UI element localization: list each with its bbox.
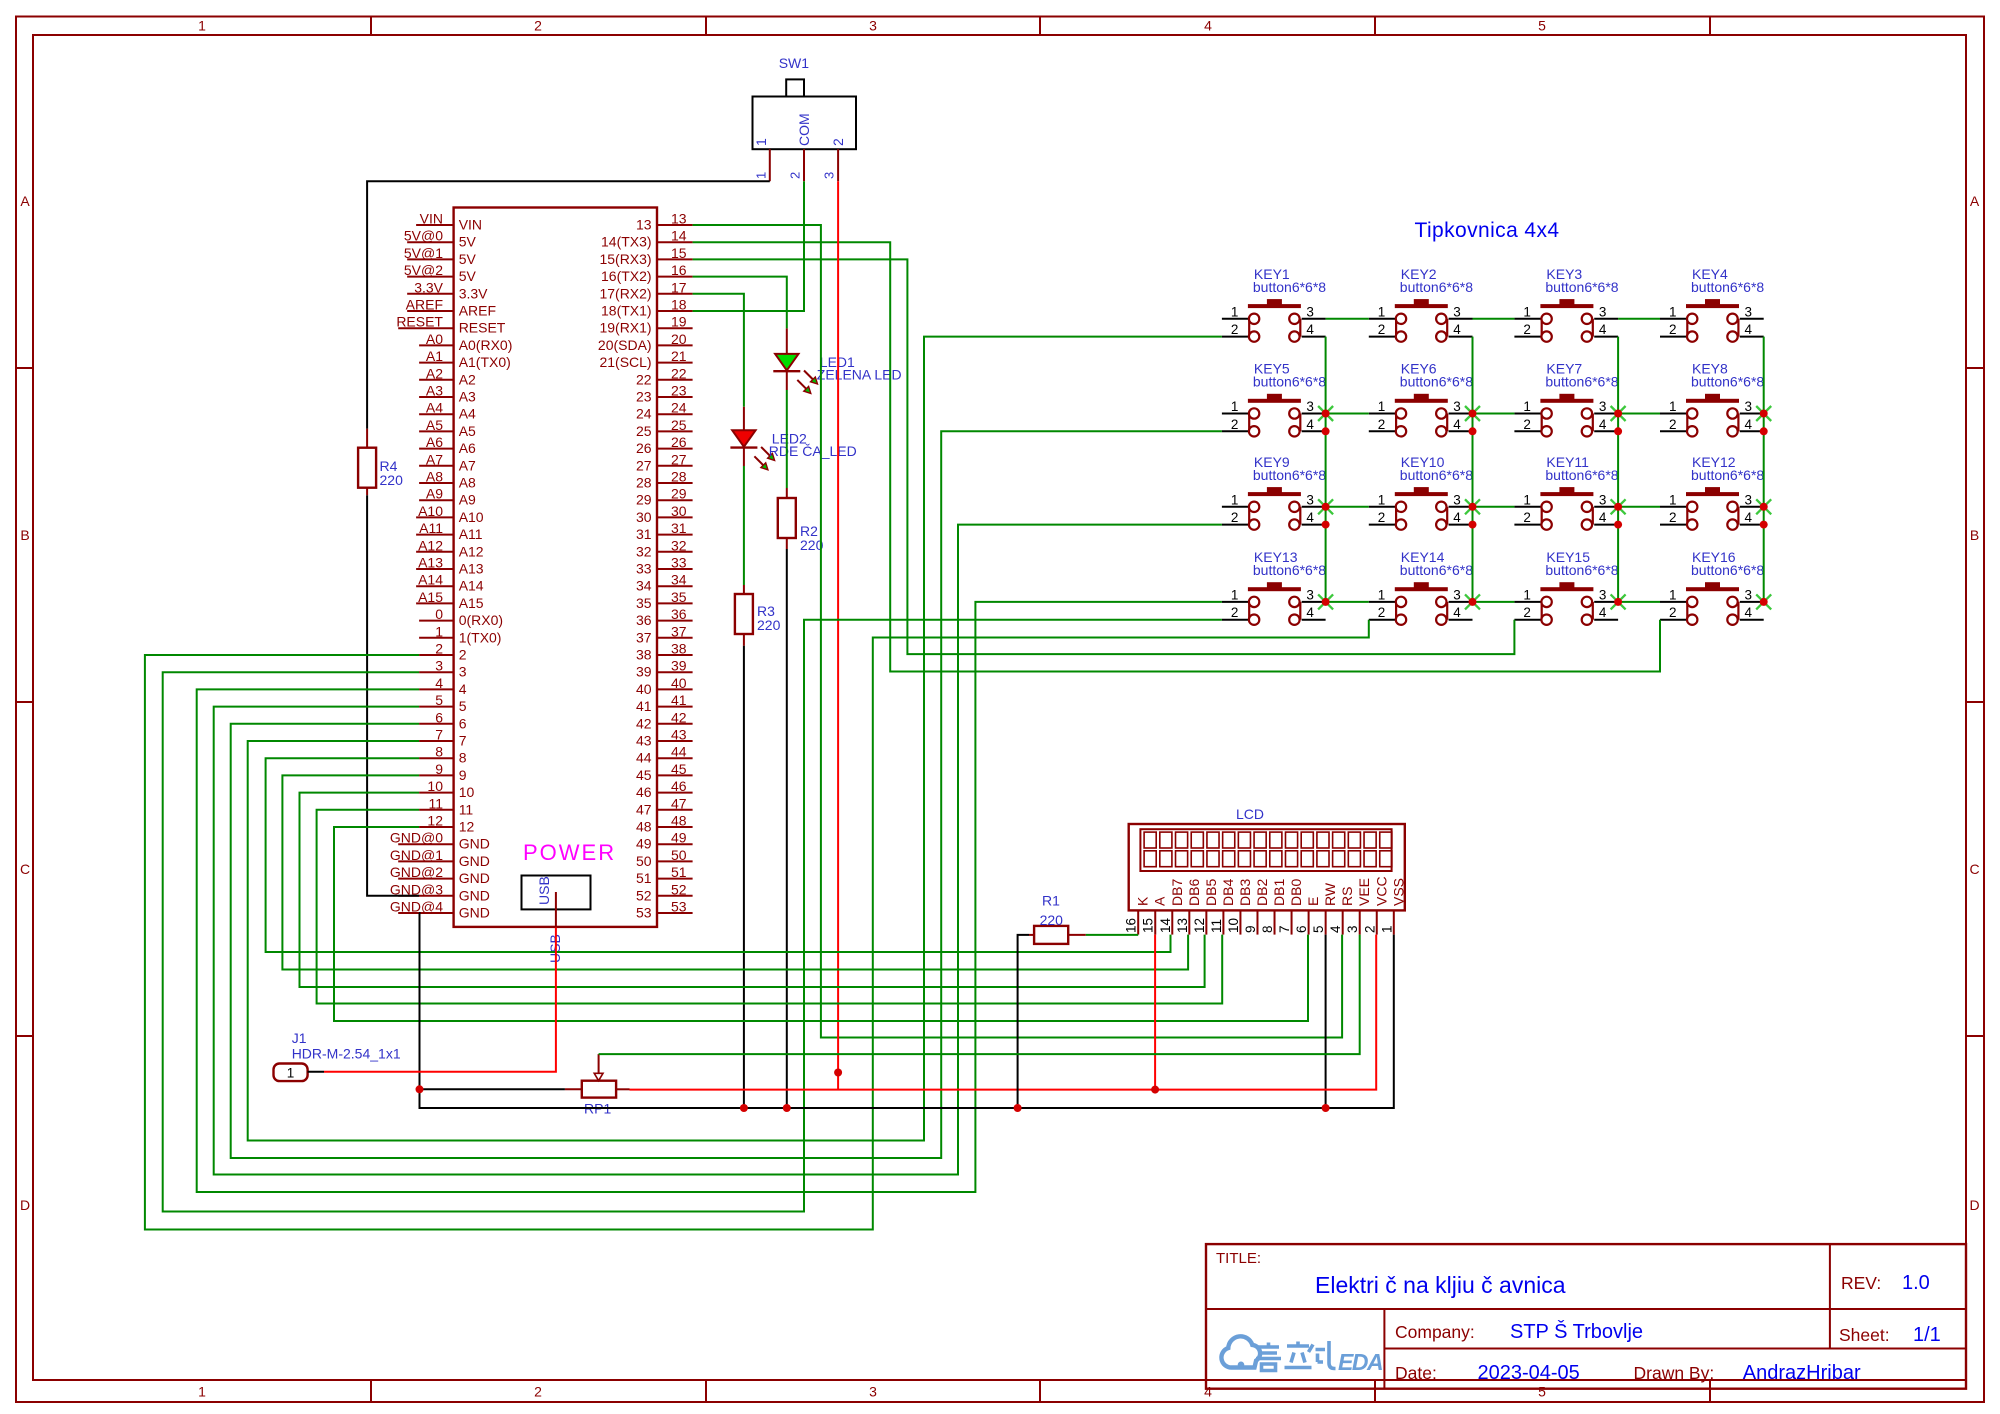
svg-text:A: A [20, 193, 30, 209]
wire pin5 to KEY9 pin2 row3 [214, 525, 1222, 1175]
resistor R2 220 [778, 498, 824, 553]
svg-text:220: 220 [1040, 912, 1064, 928]
wire keypad row4 chain [1326, 601, 1369, 603]
wire power bus RP1 to LCD VCC [630, 935, 1377, 1090]
svg-text:2: 2 [459, 647, 467, 663]
LED LED2 RDECA LED (red) [730, 430, 856, 470]
svg-text:7: 7 [435, 727, 443, 743]
svg-text:J1: J1 [292, 1030, 307, 1046]
svg-text:RESET: RESET [459, 320, 506, 336]
svg-text:A13: A13 [418, 555, 443, 571]
svg-text:13: 13 [1175, 918, 1190, 933]
svg-text:GND: GND [459, 905, 490, 921]
svg-text:A8: A8 [459, 475, 476, 491]
svg-text:4: 4 [1599, 510, 1607, 525]
svg-text:28: 28 [636, 475, 652, 491]
potentiometer RP1 [565, 1054, 630, 1116]
svg-text:36: 36 [636, 612, 652, 628]
svg-text:A1: A1 [426, 348, 443, 364]
svg-text:button6*6*8: button6*6*8 [1545, 562, 1618, 578]
svg-text:4: 4 [1453, 322, 1461, 337]
svg-text:button6*6*8: button6*6*8 [1691, 279, 1764, 295]
junction dots keypad [1322, 410, 1768, 606]
svg-text:52: 52 [671, 881, 687, 897]
svg-text:A9: A9 [426, 486, 443, 502]
svg-text:50: 50 [636, 853, 652, 869]
svg-text:38: 38 [636, 647, 652, 663]
svg-text:14: 14 [671, 228, 687, 244]
svg-text:3: 3 [435, 658, 443, 674]
wire pin4 to KEY13 pin1 row4 [197, 602, 1222, 1192]
svg-text:2: 2 [1669, 605, 1677, 620]
svg-text:A6: A6 [426, 434, 443, 450]
svg-text:29: 29 [636, 492, 652, 508]
svg-text:A11: A11 [419, 520, 443, 536]
svg-text:B: B [20, 527, 29, 543]
svg-text:48: 48 [671, 813, 687, 829]
svg-text:22: 22 [671, 365, 687, 381]
svg-text:1: 1 [754, 172, 769, 179]
svg-text:A7: A7 [426, 451, 443, 467]
svg-text:53: 53 [671, 899, 687, 915]
svg-text:2: 2 [1362, 925, 1377, 933]
svg-text:COM: COM [796, 113, 812, 146]
junction dot LCD A power bus [1151, 1086, 1159, 1094]
svg-text:3: 3 [869, 1384, 877, 1400]
svg-text:1: 1 [1669, 304, 1677, 319]
svg-text:VSS: VSS [1390, 878, 1406, 906]
svg-text:A14: A14 [459, 578, 484, 594]
svg-text:3.3V: 3.3V [414, 279, 443, 295]
svg-text:button6*6*8: button6*6*8 [1253, 467, 1326, 483]
svg-text:5V@1: 5V@1 [404, 245, 443, 261]
svg-text:3: 3 [1306, 399, 1314, 414]
svg-text:HDR-M-2.54_1x1: HDR-M-2.54_1x1 [292, 1046, 401, 1062]
svg-text:40: 40 [671, 675, 687, 691]
svg-text:10: 10 [1226, 918, 1241, 933]
pushbutton KEY5 [1222, 361, 1326, 437]
svg-text:DB1: DB1 [1271, 879, 1287, 906]
svg-text:A9: A9 [459, 492, 476, 508]
svg-text:C: C [20, 861, 30, 877]
svg-text:1: 1 [1231, 492, 1239, 507]
svg-text:VCC: VCC [1373, 876, 1389, 906]
svg-text:button6*6*8: button6*6*8 [1691, 562, 1764, 578]
svg-text:VIN: VIN [459, 217, 482, 233]
svg-text:Date:: Date: [1395, 1363, 1437, 1383]
svg-text:41: 41 [636, 698, 652, 714]
wire pin14 to KEY16 pin2 [693, 242, 1660, 671]
svg-text:A3: A3 [426, 383, 443, 399]
svg-text:4: 4 [1204, 18, 1212, 34]
svg-text:GND: GND [459, 870, 490, 886]
svg-text:A15: A15 [459, 595, 484, 611]
svg-text:31: 31 [671, 520, 687, 536]
svg-text:GND@4: GND@4 [390, 899, 443, 915]
svg-text:3: 3 [1745, 587, 1753, 602]
junction dot R2 ground bus [783, 1104, 791, 1112]
svg-text:4: 4 [1453, 510, 1461, 525]
svg-text:11: 11 [1209, 919, 1224, 933]
svg-text:A13: A13 [459, 561, 484, 577]
svg-text:37: 37 [636, 629, 652, 645]
svg-text:GND@0: GND@0 [390, 830, 443, 846]
pushbutton KEY14 [1369, 549, 1473, 625]
svg-text:A11: A11 [459, 526, 483, 542]
svg-text:3: 3 [1745, 304, 1753, 319]
svg-text:2: 2 [1231, 322, 1239, 337]
svg-text:1: 1 [1378, 492, 1386, 507]
pushbutton KEY16 [1660, 549, 1764, 625]
svg-text:1: 1 [1669, 492, 1677, 507]
svg-text:46: 46 [671, 778, 687, 794]
svg-text:Sheet:: Sheet: [1839, 1325, 1890, 1345]
svg-text:3.3V: 3.3V [459, 285, 488, 301]
svg-text:39: 39 [636, 664, 652, 680]
svg-text:1: 1 [1231, 399, 1239, 414]
svg-text:Tipkovnica 4x4: Tipkovnica 4x4 [1415, 219, 1560, 242]
svg-text:50: 50 [671, 847, 687, 863]
wire pin10 to LCD DB5 [300, 793, 1205, 987]
svg-text:34: 34 [671, 572, 687, 588]
svg-text:46: 46 [636, 784, 652, 800]
wire pin15 to KEY15 pin2 [693, 259, 1515, 654]
svg-text:32: 32 [671, 537, 687, 553]
svg-text:2: 2 [1669, 417, 1677, 432]
svg-text:34: 34 [636, 578, 652, 594]
svg-text:44: 44 [636, 750, 652, 766]
svg-text:3: 3 [1453, 399, 1461, 414]
header J1 HDR-M-2.54_1x1 [274, 1030, 401, 1081]
svg-text:A14: A14 [418, 572, 443, 588]
svg-text:20(SDA): 20(SDA) [598, 337, 652, 353]
svg-text:29: 29 [671, 486, 687, 502]
svg-text:A6: A6 [459, 440, 476, 456]
svg-text:C: C [1969, 861, 1979, 877]
svg-text:13: 13 [671, 211, 687, 227]
svg-text:AREF: AREF [406, 297, 443, 313]
svg-text:21(SCL): 21(SCL) [599, 354, 651, 370]
svg-text:4: 4 [1599, 322, 1607, 337]
svg-text:2: 2 [435, 641, 443, 657]
svg-text:40: 40 [636, 681, 652, 697]
svg-text:STP Š Trbovlje: STP Š Trbovlje [1510, 1320, 1643, 1343]
svg-text:15(RX3): 15(RX3) [599, 251, 651, 267]
svg-text:12: 12 [1192, 918, 1207, 933]
svg-text:R1: R1 [1042, 893, 1060, 909]
svg-text:3: 3 [1745, 399, 1753, 414]
svg-text:DB0: DB0 [1288, 879, 1304, 906]
svg-text:DB6: DB6 [1186, 879, 1202, 906]
svg-text:9: 9 [435, 761, 443, 777]
svg-text:4: 4 [1745, 605, 1753, 620]
svg-text:49: 49 [636, 836, 652, 852]
svg-text:2: 2 [1378, 417, 1386, 432]
svg-text:47: 47 [636, 801, 652, 817]
svg-text:7: 7 [1277, 925, 1292, 933]
wire pin17 to LED2 [693, 294, 744, 407]
svg-text:2: 2 [1523, 605, 1531, 620]
svg-text:25: 25 [636, 423, 652, 439]
pushbutton KEY9 [1222, 454, 1326, 530]
svg-text:12: 12 [427, 813, 443, 829]
wire USB to J1 [555, 892, 557, 928]
svg-text:0: 0 [435, 606, 443, 622]
svg-text:33: 33 [636, 561, 652, 577]
svg-text:LCD: LCD [1236, 806, 1264, 822]
wire LED2 to R3 to ground bus [743, 407, 745, 431]
svg-text:3: 3 [1599, 399, 1607, 414]
svg-text:D: D [20, 1197, 30, 1213]
svg-text:A12: A12 [459, 543, 484, 559]
resistor R3 220 [735, 594, 781, 634]
wire SW1 pin3 red to power bus [837, 181, 839, 1089]
svg-text:38: 38 [671, 641, 687, 657]
wire pin9 to LCD DB6 [282, 775, 1188, 969]
svg-text:1: 1 [1523, 492, 1531, 507]
svg-text:31: 31 [636, 526, 652, 542]
svg-text:A7: A7 [459, 457, 476, 473]
svg-text:4: 4 [1599, 417, 1607, 432]
svg-text:1: 1 [1378, 304, 1386, 319]
wire pin2 to KEY14 pin2 [145, 620, 1369, 1230]
svg-text:18(TX1): 18(TX1) [601, 303, 652, 319]
svg-text:5: 5 [1538, 18, 1546, 34]
svg-text:Company:: Company: [1395, 1322, 1475, 1342]
wire pin8 to LCD DB7 [266, 758, 1171, 952]
svg-text:51: 51 [671, 864, 687, 880]
svg-text:6: 6 [1294, 925, 1309, 933]
svg-text:6: 6 [435, 709, 443, 725]
wire pin11 to LCD DB4 [317, 810, 1223, 1004]
svg-text:5: 5 [1311, 925, 1326, 933]
LCD display module [1124, 806, 1407, 935]
svg-text:GND: GND [459, 887, 490, 903]
svg-text:4: 4 [1306, 322, 1314, 337]
svg-text:1: 1 [1669, 399, 1677, 414]
resistor R1 220 [1034, 893, 1068, 944]
svg-text:9: 9 [1243, 925, 1258, 933]
svg-text:TITLE:: TITLE: [1216, 1250, 1261, 1267]
svg-text:button6*6*8: button6*6*8 [1691, 467, 1764, 483]
svg-text:4: 4 [1453, 605, 1461, 620]
svg-text:1: 1 [198, 1384, 206, 1400]
svg-text:47: 47 [671, 795, 687, 811]
wire pin3 to KEY13 pin2 [163, 620, 1222, 1212]
svg-text:A3: A3 [459, 389, 476, 405]
svg-text:3: 3 [1745, 492, 1753, 507]
svg-text:19(RX1): 19(RX1) [599, 320, 651, 336]
wire GND@4 to ground bus [419, 913, 1394, 1108]
svg-text:8: 8 [459, 750, 467, 766]
svg-text:13: 13 [636, 217, 652, 233]
svg-text:A15: A15 [418, 589, 443, 605]
svg-text:DB3: DB3 [1237, 879, 1253, 906]
svg-text:49: 49 [671, 830, 687, 846]
svg-text:1: 1 [1231, 587, 1239, 602]
svg-text:A: A [1970, 193, 1980, 209]
svg-text:2: 2 [1378, 510, 1386, 525]
svg-text:button6*6*8: button6*6*8 [1545, 467, 1618, 483]
title block [1206, 1244, 1966, 1389]
svg-text:DB4: DB4 [1220, 879, 1236, 906]
svg-text:17(RX2): 17(RX2) [599, 285, 651, 301]
svg-text:A8: A8 [426, 469, 443, 485]
svg-text:7: 7 [459, 733, 467, 749]
pushbutton KEY7 [1514, 361, 1618, 437]
wire pin12 to LCD E [334, 827, 1308, 1021]
svg-text:A4: A4 [459, 406, 476, 422]
svg-text:button6*6*8: button6*6*8 [1545, 279, 1618, 295]
pushbutton KEY12 [1660, 454, 1764, 530]
svg-text:11: 11 [428, 795, 443, 811]
svg-text:button6*6*8: button6*6*8 [1400, 279, 1473, 295]
svg-text:4: 4 [1306, 417, 1314, 432]
svg-text:23: 23 [671, 383, 687, 399]
svg-text:3: 3 [1306, 492, 1314, 507]
svg-text:USB: USB [536, 876, 552, 905]
svg-text:RESET: RESET [396, 314, 443, 330]
svg-text:43: 43 [671, 727, 687, 743]
junction dot RP1 ground branch [416, 1085, 424, 1093]
wire ground bus branch to RP1 [420, 1088, 565, 1090]
svg-text:35: 35 [636, 595, 652, 611]
svg-text:27: 27 [636, 457, 652, 473]
svg-text:15: 15 [1141, 918, 1156, 933]
svg-text:RDE ČA_LED: RDE ČA_LED [769, 443, 857, 459]
svg-text:14: 14 [1158, 917, 1173, 933]
svg-text:POWER: POWER [523, 840, 616, 865]
svg-text:2: 2 [830, 138, 846, 146]
svg-text:1(TX0): 1(TX0) [459, 629, 502, 645]
svg-text:A12: A12 [418, 537, 443, 553]
svg-text:1: 1 [1523, 304, 1531, 319]
svg-text:A10: A10 [459, 509, 484, 525]
svg-text:3: 3 [1306, 587, 1314, 602]
wire pin13 to LCD RS [693, 225, 1343, 1038]
svg-text:A0: A0 [426, 331, 443, 347]
svg-text:GND: GND [459, 836, 490, 852]
svg-text:24: 24 [636, 406, 652, 422]
wire SW1 pin1 to R4 to GND@3 [367, 181, 770, 429]
svg-text:3: 3 [822, 172, 837, 179]
svg-text:32: 32 [636, 543, 652, 559]
svg-text:GND: GND [459, 853, 490, 869]
svg-text:28: 28 [671, 469, 687, 485]
svg-text:button6*6*8: button6*6*8 [1691, 374, 1764, 390]
wire LCD VEE to RP1 wiper [599, 935, 1360, 1055]
svg-text:18: 18 [671, 297, 687, 313]
svg-text:A1(TX0): A1(TX0) [459, 354, 511, 370]
pushbutton KEY8 [1660, 361, 1764, 437]
svg-text:45: 45 [636, 767, 652, 783]
svg-text:36: 36 [671, 606, 687, 622]
pushbutton KEY15 [1514, 549, 1618, 625]
svg-text:A: A [1152, 896, 1168, 906]
svg-text:5V: 5V [459, 268, 477, 284]
svg-text:10: 10 [459, 784, 475, 800]
svg-text:42: 42 [671, 709, 687, 725]
svg-text:24: 24 [671, 400, 687, 416]
USB connector box [522, 876, 591, 910]
svg-text:3: 3 [1453, 304, 1461, 319]
pushbutton KEY1 [1222, 266, 1326, 342]
pushbutton KEY2 [1369, 266, 1473, 342]
wire pin6 to KEY5 pin2 row2 [231, 431, 1222, 1158]
svg-text:5: 5 [1538, 1384, 1546, 1400]
svg-text:button6*6*8: button6*6*8 [1400, 562, 1473, 578]
pushbutton KEY10 [1369, 454, 1473, 530]
svg-text:2: 2 [1669, 322, 1677, 337]
svg-text:4: 4 [1306, 510, 1314, 525]
svg-text:3: 3 [869, 18, 877, 34]
svg-text:1/1: 1/1 [1913, 1324, 1941, 1346]
svg-text:2: 2 [1231, 510, 1239, 525]
wire keypad row2 chain [1326, 413, 1369, 415]
svg-text:4: 4 [1306, 605, 1314, 620]
no-connect X marks keypad [1318, 406, 1771, 609]
svg-text:53: 53 [636, 905, 652, 921]
svg-text:37: 37 [671, 623, 687, 639]
EasyEDA logo [1221, 1336, 1382, 1375]
svg-text:48: 48 [636, 819, 652, 835]
svg-text:16(TX2): 16(TX2) [601, 268, 652, 284]
svg-text:4: 4 [1745, 322, 1753, 337]
svg-text:DB7: DB7 [1169, 879, 1185, 906]
svg-text:DB2: DB2 [1254, 879, 1270, 906]
svg-text:45: 45 [671, 761, 687, 777]
svg-text:44: 44 [671, 744, 687, 760]
wire R1 to ground bus and LCD K [1029, 934, 1034, 936]
svg-text:1: 1 [1379, 925, 1394, 933]
svg-text:4: 4 [459, 681, 467, 697]
svg-text:AREF: AREF [459, 303, 496, 319]
svg-text:2023-04-05: 2023-04-05 [1478, 1362, 1580, 1384]
svg-text:3: 3 [1453, 492, 1461, 507]
svg-text:23: 23 [636, 389, 652, 405]
svg-text:3: 3 [1453, 587, 1461, 602]
svg-text:14(TX3): 14(TX3) [601, 234, 652, 250]
svg-text:button6*6*8: button6*6*8 [1253, 562, 1326, 578]
svg-text:8: 8 [1260, 925, 1275, 933]
svg-text:A2: A2 [459, 371, 476, 387]
svg-text:15: 15 [671, 245, 687, 261]
svg-text:11: 11 [459, 801, 474, 817]
svg-text:0(RX0): 0(RX0) [459, 612, 503, 628]
svg-text:1: 1 [198, 18, 206, 34]
svg-text:button6*6*8: button6*6*8 [1545, 374, 1618, 390]
svg-text:2: 2 [534, 18, 542, 34]
svg-text:3: 3 [1599, 587, 1607, 602]
svg-text:A5: A5 [459, 423, 476, 439]
svg-text:39: 39 [671, 658, 687, 674]
svg-text:27: 27 [671, 451, 687, 467]
svg-text:2: 2 [1669, 510, 1677, 525]
svg-text:2: 2 [1523, 322, 1531, 337]
svg-text:3: 3 [459, 664, 467, 680]
svg-text:4: 4 [1599, 605, 1607, 620]
svg-text:10: 10 [427, 778, 443, 794]
junction dot SW1 pin3 net [834, 1069, 842, 1077]
wire LCD A to power bus [1154, 935, 1156, 1090]
junction dot LCD RW ground bus [1322, 1104, 1330, 1112]
svg-text:GND@1: GND@1 [390, 847, 443, 863]
svg-text:VEE: VEE [1356, 878, 1372, 906]
svg-text:51: 51 [636, 870, 652, 886]
svg-text:41: 41 [671, 692, 687, 708]
svg-text:26: 26 [671, 434, 687, 450]
svg-text:5: 5 [435, 692, 443, 708]
